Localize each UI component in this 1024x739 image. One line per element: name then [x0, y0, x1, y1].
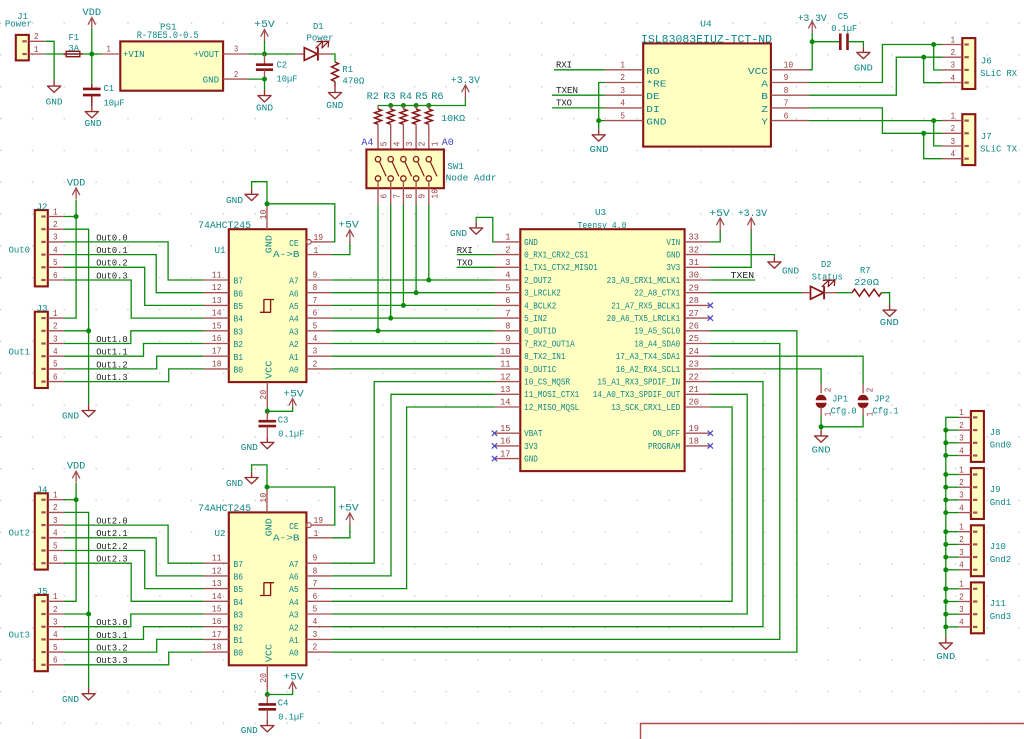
- junction R5 top: [414, 103, 419, 108]
- junction R6 top: [426, 103, 431, 108]
- svg-text:VBAT: VBAT: [524, 429, 542, 439]
- wire GND loop U1: [252, 182, 267, 204]
- wire TXO-U4: [552, 107, 605, 109]
- svg-text:3: 3: [234, 44, 238, 55]
- wire J1.1-F1: [45, 53, 63, 55]
- pin CE 19 of U2: [306, 523, 311, 528]
- wire J11 rail stubs: [946, 588, 959, 590]
- svg-text:23: 23: [689, 359, 699, 370]
- svg-text:8: 8: [313, 282, 318, 293]
- svg-text:A4: A4: [361, 137, 373, 148]
- svg-text:23_A9_CRX1_MCLK1: 23_A9_CRX1_MCLK1: [607, 276, 681, 286]
- svg-text:GND: GND: [524, 238, 538, 248]
- svg-text:GND: GND: [812, 444, 831, 455]
- no-connect: [708, 443, 713, 448]
- IC U4 ISL83083EIUZ-TCT-ND: [643, 43, 771, 146]
- svg-text:2: 2: [866, 388, 876, 393]
- power +5V: [261, 30, 269, 44]
- svg-text:9: 9: [313, 553, 318, 564]
- svg-text:+5V: +5V: [283, 673, 304, 684]
- wire 3V3-+3.3V: [710, 230, 751, 268]
- wire VIN-+5V: [710, 230, 720, 242]
- svg-text:9: 9: [505, 333, 510, 344]
- svg-text:74AHCT245: 74AHCT245: [198, 503, 251, 514]
- svg-text:TXO: TXO: [556, 98, 572, 109]
- svg-text:2: 2: [234, 69, 238, 80]
- wire A3 to U3: [332, 330, 495, 332]
- wire Out1.0: [64, 331, 203, 344]
- svg-text:3: 3: [313, 629, 318, 640]
- svg-text:CE: CE: [289, 238, 299, 249]
- power +5V (U3): [716, 218, 724, 232]
- svg-text:8_TX2_IN1: 8_TX2_IN1: [524, 352, 565, 362]
- svg-text:4: 4: [620, 98, 625, 109]
- connector J5: [35, 595, 48, 671]
- power +3.3V (U4): [808, 21, 816, 33]
- svg-text:D2: D2: [821, 259, 832, 270]
- svg-text:DI: DI: [646, 104, 659, 115]
- junction J10.2: [943, 542, 948, 547]
- wire J10 rail stubs: [946, 531, 959, 533]
- pin GND 10 of U2: [266, 487, 268, 512]
- svg-text:5: 5: [53, 642, 58, 653]
- svg-text:21: 21: [689, 384, 700, 395]
- svg-text:10: 10: [258, 493, 269, 503]
- wire Z to J7.2/J7.4: [809, 108, 942, 133]
- junction +5V node: [262, 52, 267, 57]
- svg-text:2: 2: [53, 502, 58, 513]
- svg-text:19_A5_SCL0: 19_A5_SCL0: [634, 327, 680, 337]
- svg-text:16: 16: [212, 333, 222, 344]
- svg-text:7: 7: [391, 194, 402, 199]
- svg-text:B1: B1: [234, 635, 244, 646]
- svg-text:13: 13: [212, 295, 222, 306]
- svg-text:VCC: VCC: [748, 66, 768, 77]
- svg-text:B: B: [761, 91, 768, 102]
- svg-text:11: 11: [212, 553, 222, 564]
- svg-text:6: 6: [53, 371, 58, 382]
- svg-text:R1: R1: [342, 64, 353, 75]
- junction J11.4: [943, 624, 948, 629]
- pin VCC 20 of U2: [266, 665, 268, 690]
- svg-text:3: 3: [53, 617, 58, 628]
- wire U3.13 to U2: [332, 394, 495, 576]
- connector J10 Gnd2: [971, 525, 984, 576]
- svg-text:6: 6: [53, 553, 58, 564]
- svg-text:R5: R5: [415, 91, 427, 102]
- svg-text:1: 1: [620, 60, 625, 71]
- svg-text:15: 15: [212, 604, 222, 615]
- svg-text:3_LRCLK2: 3_LRCLK2: [524, 289, 561, 299]
- svg-text:5: 5: [313, 320, 318, 331]
- wire c5-right: [848, 42, 864, 47]
- junction J8.3: [943, 440, 948, 445]
- wire Y to J7.1/J7.3: [809, 120, 942, 122]
- power VDD (J2): [72, 188, 80, 199]
- svg-text:1: 1: [53, 206, 58, 217]
- svg-text:14: 14: [500, 397, 511, 408]
- svg-text:GND: GND: [62, 694, 79, 705]
- wire Out3.3: [64, 652, 203, 665]
- junction R4 top: [401, 103, 406, 108]
- regulator PS1 R-78E5.0-0.5: [120, 41, 223, 90]
- wire J5.2: [64, 613, 89, 615]
- connector J6 SLiC RX: [962, 38, 975, 89]
- svg-text:3: 3: [959, 604, 964, 615]
- wire Out0.2: [64, 267, 203, 305]
- wire VCC node U2: [266, 691, 268, 695]
- jumper JP1 Cfg.0: [820, 385, 822, 394]
- junction J11.2: [943, 599, 948, 604]
- wire PS1.3-D1: [248, 53, 296, 55]
- svg-text:1: 1: [951, 34, 956, 45]
- wire +3.3V rail to resistors: [378, 97, 465, 106]
- svg-text:VCC: VCC: [263, 360, 274, 379]
- svg-text:GND: GND: [880, 317, 899, 328]
- pin GND 10 of U1: [266, 204, 268, 229]
- svg-text:F1: F1: [69, 32, 80, 43]
- svg-text:VDD: VDD: [67, 179, 86, 190]
- resistor R6 10K: [428, 106, 430, 110]
- svg-text:2: 2: [53, 219, 58, 230]
- wire Out2.3: [64, 563, 203, 601]
- svg-text:RXI: RXI: [556, 60, 572, 71]
- fuse F1 3A: [66, 51, 80, 56]
- svg-text:6: 6: [505, 295, 510, 306]
- wire A7 to U3: [332, 279, 495, 281]
- svg-text:10µF: 10µF: [277, 74, 298, 85]
- svg-text:+VOUT: +VOUT: [194, 49, 220, 60]
- junction J10.1: [943, 529, 948, 534]
- wire U3.21 loop: [332, 394, 747, 614]
- svg-text:B5: B5: [234, 301, 244, 312]
- svg-text:U1: U1: [215, 245, 226, 256]
- wire GND rail J4: [64, 512, 89, 688]
- junction vcc: [265, 692, 270, 697]
- wire Out3.1: [64, 627, 203, 640]
- svg-text:2: 2: [951, 123, 956, 134]
- svg-text:GND: GND: [241, 725, 258, 736]
- svg-text:R7: R7: [860, 265, 871, 276]
- svg-text:U3: U3: [595, 207, 606, 218]
- svg-text:J10: J10: [990, 541, 1006, 552]
- svg-text:*RE: *RE: [646, 79, 666, 90]
- svg-text:R3: R3: [383, 91, 395, 102]
- svg-text:U2: U2: [215, 528, 226, 539]
- ground (R7): [883, 305, 896, 317]
- connector J1 Power: [16, 35, 29, 61]
- svg-text:1: 1: [429, 141, 440, 146]
- svg-text:2: 2: [951, 47, 956, 58]
- svg-text:10: 10: [258, 210, 269, 220]
- wire TXO: [457, 266, 495, 268]
- svg-text:1: 1: [959, 407, 964, 418]
- svg-text:J7: J7: [981, 131, 992, 142]
- junction J9.1: [943, 472, 948, 477]
- svg-text:Teensy 4.0: Teensy 4.0: [578, 220, 627, 231]
- power +5V (U1 pin1): [346, 230, 354, 244]
- svg-text:JP2: JP2: [874, 394, 890, 405]
- wire U3.14 to U2: [332, 407, 495, 589]
- ground (JP): [815, 430, 828, 442]
- svg-text:29: 29: [689, 282, 699, 293]
- svg-text:18: 18: [212, 642, 222, 653]
- junction j6.1: [931, 42, 936, 47]
- junction VDD node: [89, 52, 94, 57]
- wire U3.23 to JP1: [710, 369, 821, 385]
- svg-text:0.1µF: 0.1µF: [278, 428, 304, 439]
- IC U3 Teensy 4.0: [520, 229, 684, 471]
- svg-text:RO: RO: [646, 66, 660, 77]
- svg-text:GND: GND: [326, 100, 343, 111]
- svg-text:C1: C1: [104, 83, 115, 94]
- capacitor C3 0.1uF: [266, 411, 268, 421]
- wire J4.1: [64, 499, 76, 501]
- junction jp-gnd: [819, 424, 824, 429]
- wire Out0.1: [64, 255, 203, 293]
- svg-text:7: 7: [784, 98, 789, 109]
- switch SW1 Node Addr: [366, 150, 444, 189]
- svg-text:D1: D1: [313, 21, 324, 32]
- wire SW1 drop x=378: [377, 181, 379, 205]
- svg-text:5: 5: [53, 540, 58, 551]
- junction vcc: [265, 409, 270, 414]
- svg-text:3: 3: [620, 85, 625, 96]
- wire A to J6.1/J6.3: [809, 45, 942, 83]
- svg-text:VDD: VDD: [83, 8, 102, 19]
- svg-text:A2: A2: [289, 339, 299, 350]
- ground (R1): [328, 87, 341, 99]
- connector J8 Gnd0: [971, 411, 984, 462]
- svg-text:J4: J4: [37, 485, 48, 496]
- svg-text:32: 32: [689, 244, 699, 255]
- svg-text:C4: C4: [278, 698, 289, 709]
- svg-text:4: 4: [313, 333, 318, 344]
- junction j7.2: [921, 131, 926, 136]
- wire VDD-node: [91, 29, 93, 54]
- svg-text:J5: J5: [37, 586, 48, 597]
- junction j7.1: [931, 118, 936, 123]
- svg-text:+5V: +5V: [709, 209, 730, 220]
- ground (C4): [261, 720, 274, 732]
- power VDD (J4): [72, 471, 80, 482]
- svg-text:2: 2: [959, 534, 964, 545]
- svg-text:GND: GND: [666, 251, 680, 261]
- svg-text:4: 4: [505, 270, 511, 281]
- wire A4 to U3: [332, 317, 495, 319]
- junction 3v3-c5: [810, 39, 815, 44]
- wire D1-R1: [331, 54, 335, 62]
- svg-text:15: 15: [500, 423, 510, 434]
- no-connect: [708, 315, 713, 320]
- resistor R3 10K: [390, 106, 392, 110]
- pin D2 cathode: [824, 292, 837, 294]
- svg-text:6: 6: [53, 655, 58, 666]
- wire R7-gnd: [882, 293, 890, 305]
- svg-text:GND: GND: [590, 144, 609, 155]
- svg-text:B4: B4: [234, 314, 244, 325]
- svg-text:A0: A0: [289, 365, 299, 376]
- svg-text:16: 16: [212, 616, 222, 627]
- svg-text:SLiC RX: SLiC RX: [980, 68, 1017, 79]
- svg-text:6: 6: [379, 194, 390, 199]
- ground (C3): [261, 437, 274, 449]
- svg-text:2: 2: [417, 142, 428, 147]
- junction j6.2: [921, 55, 926, 60]
- svg-text:VCC: VCC: [263, 643, 274, 662]
- svg-text:R4: R4: [400, 91, 412, 102]
- svg-text:B2: B2: [234, 622, 244, 633]
- wire F1-PS1: [83, 53, 102, 55]
- svg-text:Z: Z: [761, 104, 768, 115]
- svg-text:4: 4: [959, 560, 964, 571]
- no-connect: [708, 303, 713, 308]
- wire A5 to U3: [332, 304, 495, 306]
- svg-text:C5: C5: [838, 11, 849, 22]
- svg-text:28: 28: [689, 295, 699, 306]
- svg-text:Out1: Out1: [9, 347, 31, 358]
- junction sw-net: [414, 290, 419, 295]
- svg-text:A->B: A->B: [273, 532, 300, 543]
- svg-text:4: 4: [951, 72, 956, 83]
- ground (J8-J11): [939, 637, 952, 649]
- svg-text:A7: A7: [289, 559, 299, 570]
- wire U4.5-gnd: [599, 121, 605, 130]
- wire U4-vcc: [809, 42, 812, 70]
- wire Out2.0: [64, 525, 203, 563]
- svg-text:4: 4: [53, 528, 58, 539]
- wire +5V at VCC U1: [267, 407, 292, 412]
- svg-text:18: 18: [212, 358, 222, 369]
- svg-text:4: 4: [959, 445, 964, 456]
- wire U3.20 loop: [332, 407, 732, 601]
- svg-text:12: 12: [500, 371, 510, 382]
- svg-text:GND: GND: [62, 411, 79, 422]
- svg-text:4: 4: [313, 616, 318, 627]
- svg-text:+5V: +5V: [283, 390, 304, 401]
- svg-text:14: 14: [212, 591, 222, 602]
- svg-text:4: 4: [53, 629, 58, 640]
- svg-text:3: 3: [53, 515, 58, 526]
- svg-text:J9: J9: [990, 484, 1001, 495]
- svg-text:10: 10: [784, 60, 794, 71]
- svg-text:220Ω: 220Ω: [854, 277, 879, 288]
- wire CE enable U2: [267, 487, 335, 525]
- svg-text:GND: GND: [226, 195, 243, 206]
- svg-text:B3: B3: [234, 326, 244, 337]
- svg-text:8: 8: [784, 85, 789, 96]
- svg-text:VIN: VIN: [666, 238, 680, 248]
- wire +5V to pin1 U1: [332, 241, 350, 255]
- ground (J1): [48, 81, 61, 93]
- svg-text:Node Addr: Node Addr: [446, 172, 497, 183]
- junction R3 top: [388, 103, 393, 108]
- ground (C1): [85, 106, 98, 118]
- wire A0 to U3: [332, 368, 495, 370]
- junction sw-net: [401, 303, 406, 308]
- svg-text:24: 24: [689, 346, 700, 357]
- wire c5-left: [812, 41, 840, 43]
- resistor R2 10K: [377, 106, 379, 110]
- pin VCC 20 of U1: [266, 382, 268, 407]
- svg-text:18: 18: [689, 436, 699, 447]
- wire J3.2: [64, 330, 89, 332]
- svg-text:19: 19: [689, 423, 699, 434]
- wire U3.12 to U2: [332, 382, 495, 564]
- svg-text:1: 1: [314, 245, 319, 256]
- ground (U2 pin10): [245, 472, 258, 484]
- svg-text:SLiC TX: SLiC TX: [980, 144, 1017, 155]
- svg-text:8: 8: [404, 194, 415, 199]
- svg-text:10_CS_MQSR: 10_CS_MQSR: [524, 378, 571, 388]
- svg-text:Y: Y: [761, 117, 768, 128]
- svg-text:1: 1: [959, 579, 964, 590]
- wire U3.22 loop: [332, 382, 763, 627]
- svg-text:4: 4: [959, 502, 964, 513]
- svg-text:GND: GND: [450, 228, 467, 239]
- svg-text:A5: A5: [289, 301, 299, 312]
- svg-text:15: 15: [212, 320, 222, 331]
- svg-text:GND: GND: [936, 651, 955, 662]
- svg-text:JP1: JP1: [832, 394, 848, 405]
- wire Out2.2: [64, 551, 203, 589]
- svg-text:J8: J8: [990, 427, 1001, 438]
- svg-text:0.1µF: 0.1µF: [831, 23, 857, 34]
- svg-text:A2: A2: [289, 622, 299, 633]
- svg-text:A7: A7: [289, 276, 299, 287]
- svg-text:3: 3: [53, 232, 58, 243]
- svg-text:470Ω: 470Ω: [342, 76, 364, 87]
- svg-text:3: 3: [951, 60, 956, 71]
- svg-text:11: 11: [212, 270, 222, 281]
- svg-text:3: 3: [313, 346, 318, 357]
- capacitor C4 0.1uF: [266, 695, 268, 705]
- svg-text:9_OUT1C: 9_OUT1C: [524, 365, 556, 375]
- svg-text:6: 6: [53, 270, 58, 281]
- wire VDD rail J2/J3: [64, 200, 76, 319]
- svg-text:J11: J11: [990, 598, 1006, 609]
- svg-text:3: 3: [951, 136, 956, 147]
- svg-text:1: 1: [951, 110, 956, 121]
- svg-text:17: 17: [212, 629, 222, 640]
- svg-text:9: 9: [784, 72, 789, 83]
- svg-text:PROGRAM: PROGRAM: [648, 442, 680, 452]
- svg-text:0_RX1_CRX2_CS1: 0_RX1_CRX2_CS1: [524, 251, 588, 261]
- wire C2-gnd: [264, 79, 266, 90]
- wire GND rail J2: [64, 229, 89, 405]
- svg-text:2: 2: [959, 477, 964, 488]
- wire status: [710, 292, 802, 294]
- svg-text:Gnd1: Gnd1: [990, 497, 1012, 508]
- svg-text:GND: GND: [203, 74, 220, 85]
- svg-text:74AHCT245: 74AHCT245: [198, 220, 251, 231]
- svg-text:6_OUT1D: 6_OUT1D: [524, 327, 556, 337]
- svg-text:13: 13: [500, 384, 510, 395]
- schmitt symbol U1: [260, 300, 274, 313]
- wire SW1 drop x=416: [415, 181, 417, 205]
- ground (U4): [592, 129, 605, 141]
- svg-text:A->B: A->B: [273, 249, 300, 260]
- svg-text:4: 4: [951, 149, 956, 160]
- svg-text:VDD: VDD: [67, 462, 86, 473]
- junction gnd-pin10: [265, 201, 270, 206]
- svg-text:7: 7: [313, 578, 318, 589]
- svg-text:3A: 3A: [69, 43, 80, 54]
- wire Out3.2: [64, 639, 203, 652]
- svg-text:1: 1: [53, 591, 58, 602]
- wire D2-R7: [837, 292, 852, 294]
- svg-text:B7: B7: [234, 276, 244, 287]
